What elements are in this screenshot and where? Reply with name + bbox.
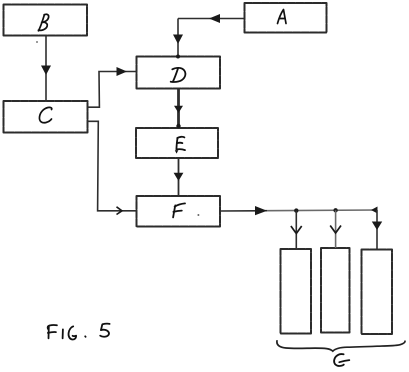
- small left arrowhead at manifold end: [371, 207, 378, 214]
- arrowhead B to C: [41, 66, 51, 76]
- junction dot on E top: [176, 124, 180, 128]
- letter D: [171, 68, 186, 82]
- arrowhead G3: [372, 222, 382, 231]
- wire B to C: [45, 36, 47, 102]
- junction dot on D top: [176, 55, 180, 59]
- wire C to D branch: [87, 72, 137, 108]
- wire D to E: [177, 90, 180, 129]
- arrowhead into F (small open): [117, 207, 123, 215]
- box E: [136, 128, 218, 158]
- junction dot 2: [333, 208, 337, 212]
- wire C to F branch: [87, 121, 137, 211]
- arrowhead D to E: [174, 106, 183, 113]
- box C: [4, 101, 88, 133]
- junction dot 1: [294, 208, 298, 212]
- box F: [137, 196, 221, 227]
- wire F to manifold: [220, 210, 377, 211]
- box G3: [362, 250, 393, 335]
- wire corner down to D: [177, 19, 179, 57]
- speck: [36, 41, 38, 43]
- wire E to F: [178, 158, 180, 196]
- arrowhead E to F: [174, 173, 184, 181]
- wire drop to G2: [335, 210, 337, 248]
- letter E: [175, 137, 185, 154]
- arrowhead into D (right): [117, 67, 128, 76]
- label FIG. 5: [48, 324, 110, 340]
- arrowhead into corner (left): [209, 14, 220, 23]
- open arrowhead G2: [330, 226, 341, 234]
- label G: [334, 354, 349, 366]
- open arrowhead G1: [291, 226, 302, 234]
- dot after F: [197, 214, 199, 216]
- wire A to corner: [178, 18, 244, 20]
- letter B: [38, 14, 48, 31]
- letter F: [173, 203, 185, 217]
- arrowhead into D (down): [173, 35, 183, 45]
- box A: [245, 3, 327, 33]
- letter A: [278, 10, 287, 24]
- box D: [137, 57, 221, 89]
- letter C: [39, 107, 51, 122]
- arrowhead on manifold (right): [255, 206, 267, 215]
- box G1: [281, 249, 312, 334]
- box G2: [321, 248, 350, 333]
- wire drop to G3: [376, 210, 378, 249]
- brace G: [277, 341, 405, 351]
- wire drop to G1: [295, 211, 297, 249]
- box B: [4, 5, 88, 36]
